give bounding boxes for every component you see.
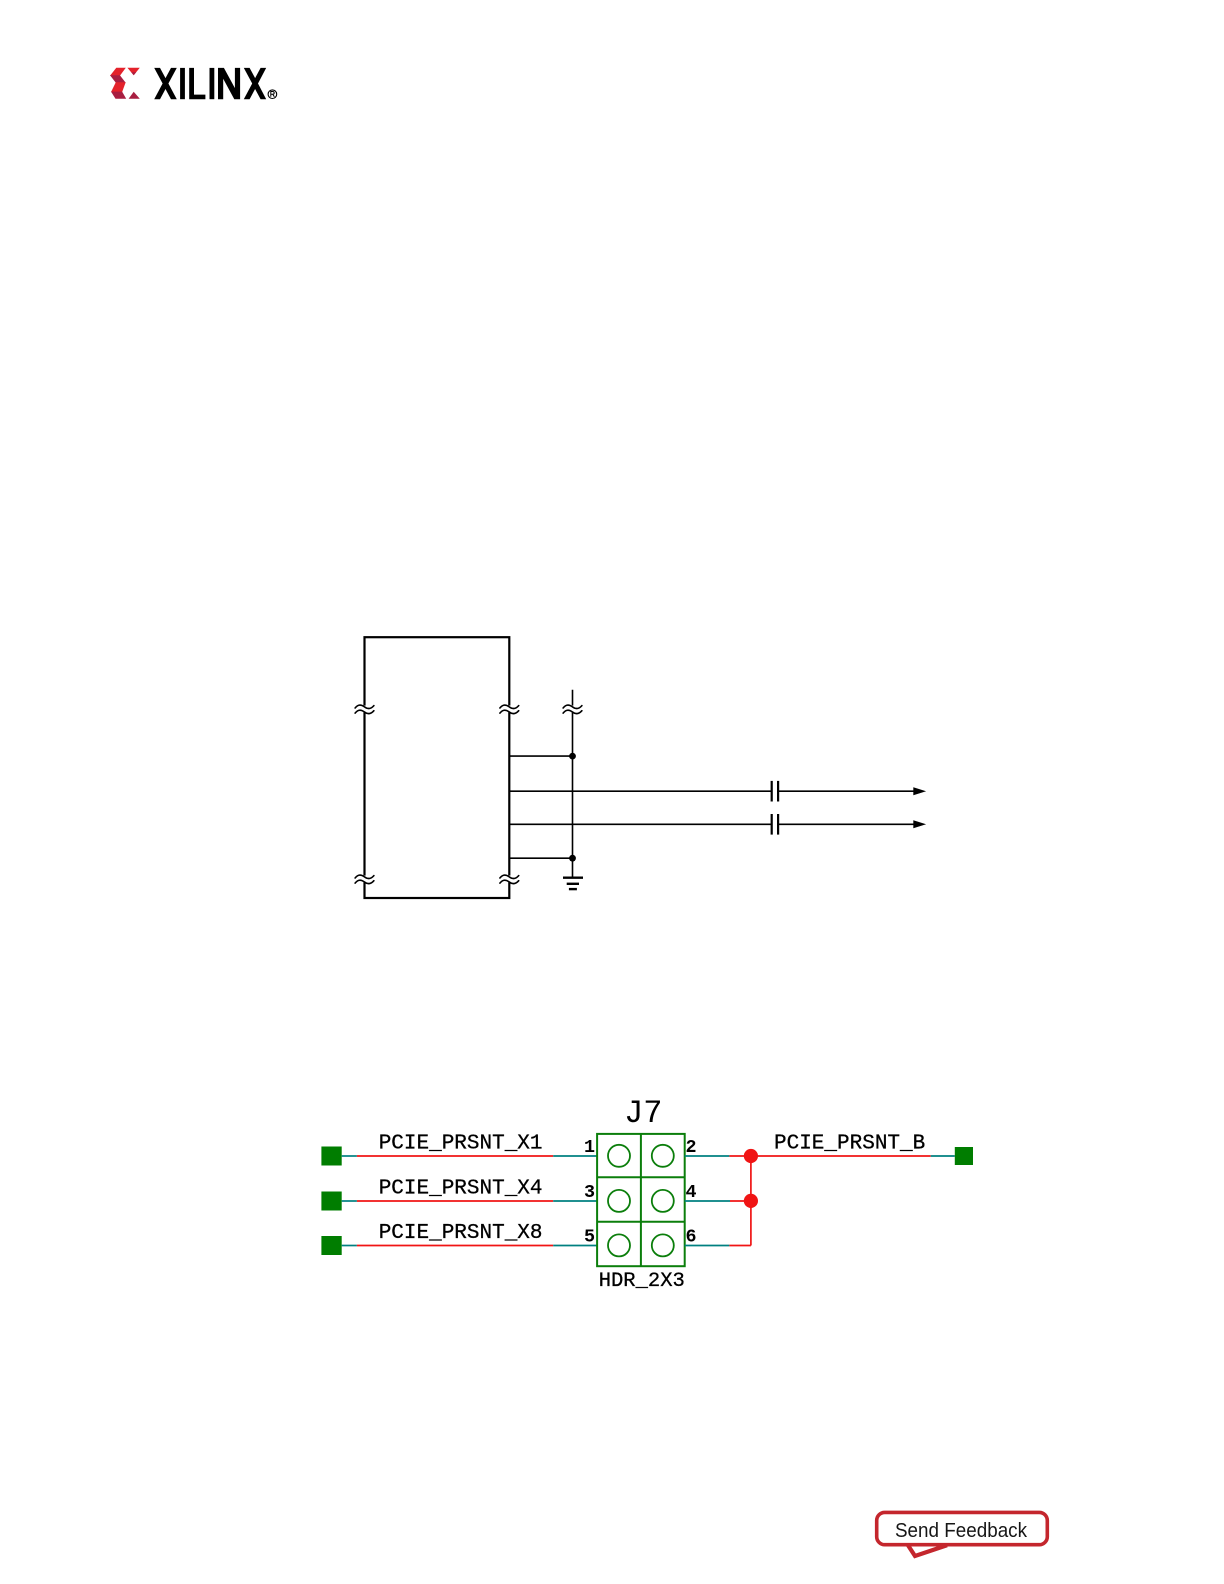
wire red net PCIE_PRSNT_X4 bbox=[357, 1200, 553, 1202]
logo mark band middle bright red bbox=[111, 82, 126, 92]
arrowhead output lower bbox=[913, 820, 926, 828]
port PCIE_PRSNT_B (green square) bbox=[955, 1147, 973, 1165]
wire red net PCIE_PRSNT_X1 bbox=[357, 1155, 553, 1157]
port PCIE_PRSNT_X1 (green square) bbox=[321, 1147, 341, 1166]
logo mark top-right triangle bright red bbox=[127, 68, 139, 76]
svg-text:PCIE_PRSNT_X1: PCIE_PRSNT_X1 bbox=[379, 1132, 543, 1155]
letter L bbox=[189, 68, 205, 99]
white gaps on block edges for break symbols bbox=[362, 706, 512, 883]
junction dot lower bbox=[569, 855, 576, 862]
capacitor C2 (dc blocking) bbox=[772, 814, 778, 835]
wire red pin4 to junction bbox=[730, 1200, 751, 1202]
svg-text:PCIE_PRSNT_X8: PCIE_PRSNT_X8 bbox=[379, 1222, 543, 1245]
wire teal row1 left bbox=[342, 1155, 357, 1157]
svg-text:J7: J7 bbox=[624, 1095, 662, 1132]
svg-text:4: 4 bbox=[686, 1182, 697, 1203]
header J7 HDR_2X3 outline bbox=[597, 1134, 685, 1266]
wire teal row2 to pin 3 bbox=[553, 1200, 597, 1202]
port PCIE_PRSNT_X8 (green square) bbox=[321, 1236, 341, 1255]
svg-text:PCIE_PRSNT_B: PCIE_PRSNT_B bbox=[774, 1132, 925, 1155]
wire pin4 from block to vertical net bbox=[509, 857, 572, 859]
logo mark top-right triangle shading dark crimson bbox=[131, 72, 136, 75]
wire pin1 from block to vertical net bbox=[509, 755, 572, 757]
header pin circle 4 bbox=[652, 1190, 674, 1212]
wire teal pin2 right bbox=[685, 1155, 730, 1157]
break symbol on block right edge top bbox=[500, 705, 519, 713]
wire teal row2 left bbox=[342, 1200, 357, 1202]
send feedback button tail bbox=[908, 1545, 948, 1557]
letter X bbox=[244, 68, 266, 99]
Xilinx logotype XILINX bbox=[154, 68, 266, 99]
wire teal pin6 right bbox=[685, 1245, 730, 1247]
header pin circle 1 bbox=[608, 1145, 630, 1167]
junction dot red pin4 bbox=[744, 1194, 758, 1208]
junction dot red pin2 bbox=[744, 1149, 758, 1163]
arrowhead output upper bbox=[913, 787, 926, 795]
wire teal row1 to pin 1 bbox=[553, 1155, 597, 1157]
send feedback button box bbox=[877, 1512, 1048, 1544]
ground symbol bbox=[563, 878, 583, 889]
logo mark band bottom dark crimson bbox=[111, 92, 126, 99]
send feedback text bbox=[895, 1519, 1027, 1542]
port PCIE_PRSNT_X4 (green square) bbox=[321, 1192, 341, 1211]
Xilinx logo mark bbox=[110, 68, 140, 99]
header pin circle 3 bbox=[608, 1190, 630, 1212]
logo mark bottom-right triangle dark crimson bbox=[129, 92, 140, 99]
wire teal row3 left bbox=[342, 1245, 357, 1247]
break symbol on block right edge bottom bbox=[500, 875, 519, 883]
capacitor C1 (dc blocking) bbox=[772, 781, 778, 802]
svg-text:PCIE_PRSNT_X4: PCIE_PRSNT_X4 bbox=[379, 1177, 543, 1200]
svg-text:3: 3 bbox=[584, 1182, 595, 1203]
logo mark band top-left bright red bbox=[110, 68, 126, 76]
IC block (unlabeled device outline) bbox=[365, 637, 510, 898]
svg-text:5: 5 bbox=[584, 1226, 595, 1247]
wire: vertical net line right of block bbox=[572, 690, 574, 878]
wire red vertical bus tie bbox=[750, 1156, 752, 1246]
break symbol on block left edge top bbox=[355, 705, 374, 713]
junction dot upper bbox=[569, 753, 576, 760]
svg-text:6: 6 bbox=[686, 1226, 697, 1247]
svg-text:HDR_2X3: HDR_2X3 bbox=[599, 1270, 685, 1293]
header pin circle 6 bbox=[652, 1234, 674, 1256]
break symbol on vertical net line bbox=[563, 705, 582, 713]
wire teal pin4 right bbox=[685, 1200, 730, 1202]
wire from capacitor C2 to arrow bbox=[778, 823, 915, 825]
registered trademark symbol bbox=[268, 90, 277, 99]
wire red net PCIE_PRSNT_B bbox=[729, 1155, 930, 1157]
svg-text:1: 1 bbox=[584, 1137, 595, 1158]
wire red pin6 to vertical bbox=[729, 1245, 751, 1247]
wire teal row3 to pin 5 bbox=[553, 1245, 597, 1247]
wire teal row to right port bbox=[931, 1155, 955, 1157]
header pin circle 5 bbox=[608, 1234, 630, 1256]
letter I bbox=[180, 68, 185, 99]
header pin circle 2 bbox=[652, 1145, 674, 1167]
wire red net PCIE_PRSNT_X8 bbox=[357, 1245, 553, 1247]
wire pin2 from block to capacitor C1 bbox=[509, 790, 771, 792]
svg-text:Send Feedback: Send Feedback bbox=[895, 1519, 1027, 1542]
letter N bbox=[218, 68, 240, 99]
letter I bbox=[210, 68, 215, 99]
wire pin3 from block to capacitor C2 bbox=[509, 823, 771, 825]
break symbol on block left edge bottom bbox=[355, 875, 374, 883]
wire from capacitor C1 to arrow bbox=[778, 790, 915, 792]
logo mark band upper-left dark crimson bbox=[110, 75, 126, 83]
svg-text:2: 2 bbox=[686, 1137, 697, 1158]
letter X bbox=[154, 68, 177, 99]
